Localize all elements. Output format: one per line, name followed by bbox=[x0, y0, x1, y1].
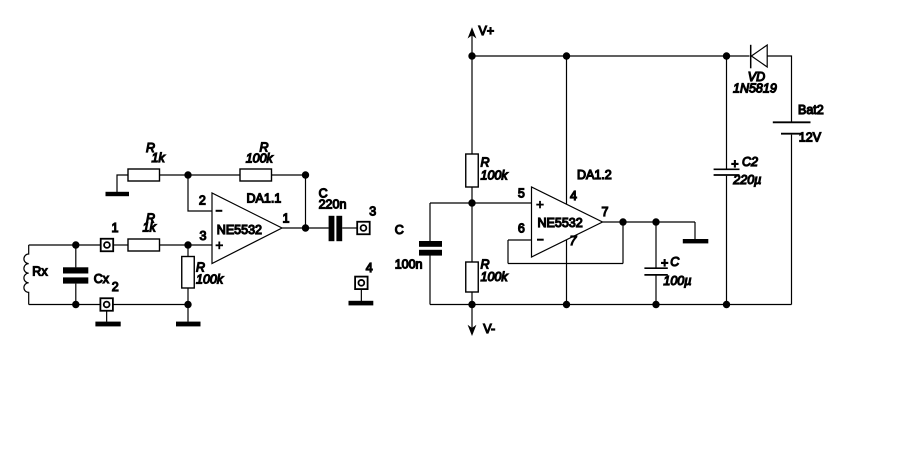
wire U1 output to C4 bbox=[282, 227, 329, 229]
wire bottom node to ground bbox=[187, 305, 189, 322]
svg-text:DA1.1: DA1.1 bbox=[247, 192, 282, 206]
svg-text:V+: V+ bbox=[479, 24, 495, 38]
diode VD bbox=[751, 45, 768, 69]
svg-text:C2: C2 bbox=[742, 155, 758, 169]
node top rail left dot bbox=[468, 52, 475, 59]
svg-text:100k: 100k bbox=[246, 152, 274, 166]
wire bottom loop Rx to pad 2 bbox=[29, 304, 101, 306]
svg-text:4: 4 bbox=[366, 261, 373, 275]
node pin3 dot bbox=[184, 241, 191, 248]
svg-text:+: + bbox=[661, 256, 668, 270]
resistor R6 100k lower bbox=[466, 262, 479, 292]
svg-text:2: 2 bbox=[199, 194, 206, 208]
node Cx bottom dot bbox=[72, 301, 79, 308]
svg-text:NE5532: NE5532 bbox=[538, 216, 583, 230]
svg-text:6: 6 bbox=[518, 222, 525, 236]
svg-text:2: 2 bbox=[112, 280, 119, 294]
svg-text:7: 7 bbox=[602, 205, 609, 219]
capacitor Cx plates bbox=[63, 267, 88, 283]
wire pin6 stub bbox=[508, 239, 532, 241]
svg-text:DA1.2: DA1.2 bbox=[577, 168, 612, 182]
wire node B down to output row bbox=[305, 175, 307, 228]
wire V+ to rail bbox=[471, 32, 473, 154]
svg-text:100k: 100k bbox=[196, 273, 224, 287]
wire C4 to pad 3 bbox=[342, 227, 357, 229]
capacitor C6 100u leads bbox=[655, 222, 657, 268]
capacitor C2 plates bbox=[714, 169, 740, 175]
svg-text:V-: V- bbox=[483, 322, 495, 336]
inductor Rx bbox=[24, 245, 29, 305]
battery Bat2 plates bbox=[773, 122, 811, 133]
capacitor C2 leads bbox=[726, 56, 728, 169]
svg-text:7: 7 bbox=[570, 234, 578, 248]
V- arrow bbox=[468, 325, 477, 336]
minus sign U1 bbox=[216, 210, 223, 212]
svg-text:1: 1 bbox=[283, 212, 290, 226]
node bottom R4 dot bbox=[184, 301, 191, 308]
wire battery down to bottom rail bbox=[791, 135, 793, 305]
svg-text:Cx: Cx bbox=[94, 272, 110, 286]
node top rail C2 dot bbox=[723, 52, 730, 59]
wire R1k left lead bbox=[117, 175, 128, 192]
node bottom rail supply dot bbox=[563, 301, 570, 308]
svg-text:100µ: 100µ bbox=[663, 274, 691, 288]
op-amp U1 DA1.1 bbox=[212, 193, 282, 264]
node top rail pin4 dot bbox=[563, 52, 570, 59]
wire R2 right to node B bbox=[272, 174, 306, 176]
svg-text:C: C bbox=[670, 255, 680, 269]
capacitor C6 100u plates bbox=[644, 268, 667, 275]
node divider mid dot bbox=[468, 199, 475, 206]
wire R4 to bottom row bbox=[187, 288, 189, 305]
bottom rail wire bbox=[430, 304, 792, 306]
capacitor Cx leads bbox=[75, 245, 77, 267]
svg-text:C: C bbox=[395, 223, 404, 237]
resistor R5 100k upper bbox=[466, 154, 479, 187]
node bottom rail C6 dot bbox=[652, 301, 659, 308]
svg-text:1k: 1k bbox=[143, 221, 157, 235]
wire pad1 to R3 bbox=[113, 244, 128, 246]
node B dot bbox=[302, 171, 309, 178]
svg-text:NE5532: NE5532 bbox=[217, 223, 262, 237]
node output C6 dot bbox=[652, 218, 659, 225]
svg-text:4: 4 bbox=[570, 189, 577, 203]
svg-text:Rx: Rx bbox=[32, 265, 48, 279]
wire supply top segment pin 4 bbox=[566, 56, 568, 204]
svg-text:1: 1 bbox=[112, 221, 119, 235]
svg-text:1N5819: 1N5819 bbox=[733, 81, 777, 95]
top rail wire bbox=[472, 55, 750, 57]
connector pad 3 bbox=[357, 222, 370, 235]
capacitor C4 220n bbox=[329, 216, 343, 241]
node A dot bbox=[184, 171, 191, 178]
wire pin5 row bbox=[430, 202, 532, 204]
wire V- stem bbox=[471, 305, 473, 331]
svg-text:220n: 220n bbox=[319, 198, 347, 212]
wire supply bottom segment bbox=[566, 240, 568, 305]
wire pad2 to bottom node bbox=[113, 304, 188, 306]
svg-text:12V: 12V bbox=[799, 130, 822, 144]
svg-text:100k: 100k bbox=[481, 169, 509, 183]
svg-text:5: 5 bbox=[518, 187, 525, 201]
wire pad 2 to ground bbox=[106, 311, 108, 322]
wire feedback bottom bbox=[508, 263, 623, 265]
node Cx top dot bbox=[72, 241, 79, 248]
wire diode to battery corner bbox=[767, 56, 791, 122]
wire feedback right leg bbox=[622, 222, 624, 264]
svg-text:3: 3 bbox=[200, 229, 207, 243]
wire R5 to R6 bbox=[471, 187, 473, 262]
node bottom rail C2 dot bbox=[723, 301, 730, 308]
capacitor C5 100n plates bbox=[419, 241, 442, 256]
capacitor C5 100n leads bbox=[429, 203, 431, 241]
ground under R4 bbox=[176, 322, 201, 327]
svg-text:+: + bbox=[731, 157, 738, 171]
plus sign U1 bbox=[216, 242, 223, 250]
resistor R4 100k vertical bbox=[182, 257, 195, 289]
wire R3 to pin 3 bbox=[160, 244, 213, 246]
wire input row Rx to pad 1 bbox=[29, 244, 101, 246]
node output dot bbox=[302, 224, 309, 231]
node bottom rail left dot bbox=[468, 301, 475, 308]
wire output ground stem bbox=[694, 222, 696, 239]
svg-text:3: 3 bbox=[369, 205, 376, 219]
minus sign U2 bbox=[537, 239, 544, 241]
wire R6 to bottom rail bbox=[471, 292, 473, 305]
connector pad 1 bbox=[101, 239, 114, 252]
ground at output bbox=[683, 239, 709, 243]
resistor R3 1k bbox=[128, 239, 160, 251]
wire U2 output row bbox=[603, 221, 696, 223]
ground under pad 2 bbox=[95, 322, 120, 327]
svg-text:Bat2: Bat2 bbox=[798, 103, 824, 117]
svg-text:R: R bbox=[481, 156, 490, 170]
svg-text:100k: 100k bbox=[481, 270, 509, 284]
svg-text:100n: 100n bbox=[395, 257, 423, 271]
resistor R2 100k bbox=[240, 169, 272, 181]
resistor R1 1k bbox=[128, 169, 160, 181]
wire R1 to R2 top row bbox=[160, 174, 241, 176]
connector pad 4 bbox=[355, 277, 368, 290]
svg-text:220µ: 220µ bbox=[732, 173, 761, 187]
wire feedback left leg bbox=[507, 240, 509, 264]
V+ arrow bbox=[468, 27, 477, 38]
op-amp U2 DA1.2 bbox=[532, 187, 603, 257]
svg-text:1k: 1k bbox=[152, 151, 166, 165]
wire pin3 node down to R4 bbox=[187, 245, 189, 257]
ground under pad 4 bbox=[349, 301, 374, 306]
plus sign U2 bbox=[536, 201, 543, 208]
connector pad 2 bbox=[100, 298, 113, 311]
wire node A down to pin 2 bbox=[188, 175, 212, 211]
node output feedback dot bbox=[619, 218, 626, 225]
wire pad 4 to ground bbox=[360, 289, 362, 301]
ground under R1 lead bbox=[106, 192, 130, 196]
